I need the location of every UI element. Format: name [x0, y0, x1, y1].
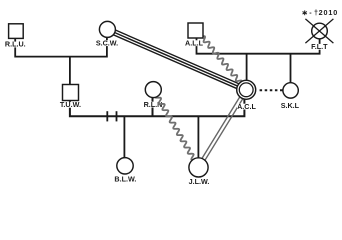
wire: couple line A.L.L-F.L.T — [196, 38, 321, 54]
svg-text:2010: 2010 — [319, 8, 339, 17]
crossed circle F.L.T (deceased) — [305, 19, 333, 43]
wavy relationship line R.L.N-J.L.W. — [155, 91, 198, 166]
svg-text:S.C.W.: S.C.W. — [96, 38, 118, 47]
circle J.L.W. — [189, 158, 208, 177]
square T.U.W. — [63, 85, 79, 101]
wire: child drop to B.L.W. — [123, 116, 125, 157]
svg-text:B.L.W.: B.L.W. — [114, 174, 136, 183]
wire: child drop to S.K.L — [290, 54, 292, 83]
triple relationship line S.C.W.-A.C.L — [106, 27, 247, 92]
circle S.C.W. — [99, 21, 115, 37]
circle S.K.L — [283, 83, 298, 98]
svg-text:A.C.L: A.C.L — [237, 102, 256, 111]
label R.L.U. — [5, 40, 26, 49]
label S.K.L — [281, 101, 300, 110]
svg-text:R.L.U.: R.L.U. — [5, 40, 26, 49]
circle B.L.W. — [117, 158, 133, 174]
wavy relationship line A.L.L-A.C.L — [202, 36, 244, 87]
double relationship line A.C.L-J.L.W. — [197, 89, 248, 168]
square A.L.L — [188, 23, 203, 38]
label A.L.L — [185, 38, 204, 47]
label A.C.L — [237, 102, 256, 111]
square R.L.U. — [9, 24, 24, 39]
label B.L.W. — [114, 174, 138, 183]
separation ticks — [107, 111, 116, 121]
svg-text:F.L.T: F.L.T — [311, 42, 328, 51]
svg-text:J.L.W.: J.L.W. — [189, 177, 210, 186]
dotted relationship line A.C.L-S.K.L — [260, 89, 283, 91]
double circle A.C.L — [237, 80, 256, 99]
circle R.L.N. — [145, 82, 161, 98]
wire: child drop to A.C.L — [246, 54, 248, 81]
label R.L.N — [143, 100, 162, 109]
wire: couple line T.U.W.-A.C.L — [69, 98, 246, 117]
svg-text:S.K.L: S.K.L — [281, 101, 300, 110]
wire: child drop to J.L.W. — [197, 116, 199, 158]
label T.U.W. — [58, 100, 82, 109]
birth-death annotation star — [303, 10, 307, 15]
label F.L.T — [311, 42, 328, 51]
svg-text:T.U.W.: T.U.W. — [60, 100, 81, 109]
wire: child drop to T.U.W. — [69, 57, 71, 85]
birth-death annotation text — [309, 8, 338, 17]
svg-text:A.L.L: A.L.L — [185, 38, 204, 47]
wire: couple line R.L.U.-S.C.W. — [14, 37, 108, 56]
label S.C.W. — [95, 38, 119, 47]
svg-text:†: † — [314, 8, 318, 17]
label J.L.W. — [188, 177, 210, 186]
